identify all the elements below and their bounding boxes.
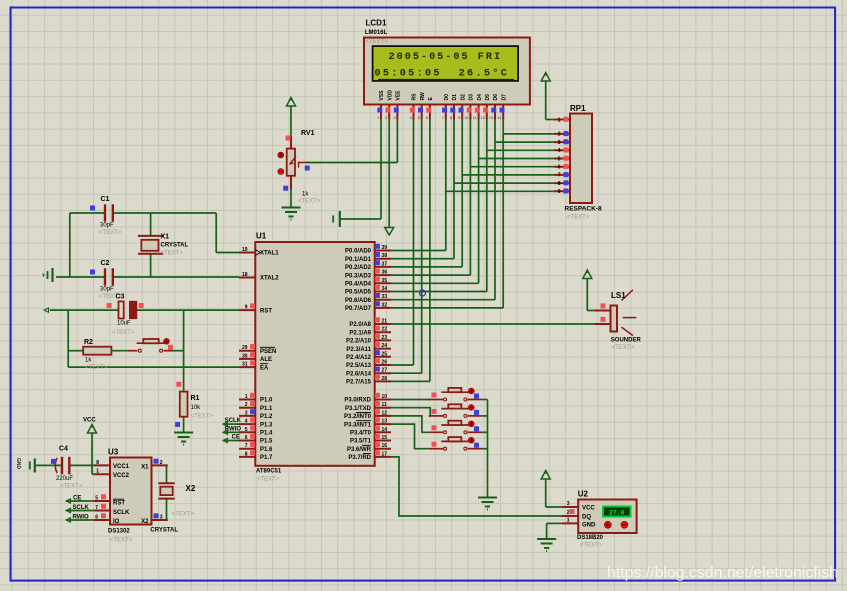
svg-text:31: 31	[242, 362, 248, 368]
svg-text:37: 37	[382, 261, 388, 267]
svg-text:VCC: VCC	[83, 418, 96, 424]
svg-text:P1.6: P1.6	[260, 447, 273, 453]
svg-text:RWIO: RWIO	[225, 426, 242, 432]
svg-text:P0.5/AD5: P0.5/AD5	[345, 290, 372, 296]
svg-text:LCD1: LCD1	[366, 19, 387, 28]
svg-text:<TEXT>: <TEXT>	[191, 414, 214, 420]
svg-text:P1.0: P1.0	[260, 398, 273, 404]
svg-text:P3.3/INT1: P3.3/INT1	[344, 422, 372, 428]
svg-text:<TEXT>: <TEXT>	[110, 538, 133, 544]
svg-text:13: 13	[382, 419, 388, 425]
svg-text:P3.6/WR: P3.6/WR	[347, 447, 372, 453]
svg-text:RESPACK-8: RESPACK-8	[565, 206, 602, 213]
svg-text:14: 14	[497, 115, 502, 120]
svg-text:5: 5	[95, 496, 98, 502]
svg-text:<TEXT>: <TEXT>	[60, 484, 83, 490]
svg-text:P0.3/AD3: P0.3/AD3	[345, 273, 372, 279]
svg-text:CRYSTAL: CRYSTAL	[150, 528, 178, 534]
svg-text:VCC2: VCC2	[113, 473, 130, 479]
svg-text:<TEXT>: <TEXT>	[161, 251, 184, 257]
svg-text:2: 2	[567, 510, 570, 516]
svg-text:36: 36	[382, 270, 388, 276]
svg-text:PSEN: PSEN	[260, 349, 276, 355]
svg-text:16: 16	[382, 443, 388, 449]
svg-text:9: 9	[245, 305, 248, 311]
svg-text:RP1: RP1	[570, 104, 586, 113]
svg-text:P2.6/A14: P2.6/A14	[346, 371, 372, 377]
svg-text:9: 9	[558, 189, 561, 195]
svg-text:P3.0/RXD: P3.0/RXD	[344, 398, 371, 404]
svg-text:1k: 1k	[85, 358, 92, 364]
svg-text:2: 2	[245, 402, 248, 408]
svg-text:15: 15	[382, 435, 388, 441]
svg-text:10: 10	[464, 115, 469, 120]
svg-text:4: 4	[558, 148, 561, 154]
svg-text:P1.1: P1.1	[260, 406, 273, 412]
svg-text:17: 17	[382, 451, 388, 457]
svg-text:VEE: VEE	[396, 90, 402, 101]
svg-text:C2: C2	[101, 260, 110, 267]
svg-text:RWIO: RWIO	[73, 515, 90, 521]
svg-text:<TEXT>: <TEXT>	[612, 345, 635, 351]
svg-text:SCLK: SCLK	[73, 505, 90, 511]
svg-text:<TEXT>: <TEXT>	[112, 330, 135, 336]
svg-text:RW: RW	[420, 92, 426, 101]
svg-text:24: 24	[382, 343, 388, 349]
svg-text:<TEXT>: <TEXT>	[257, 477, 280, 483]
svg-text:8: 8	[96, 460, 99, 466]
svg-text:6: 6	[95, 515, 98, 521]
svg-text:VCC1: VCC1	[113, 464, 130, 470]
svg-text:GND: GND	[582, 522, 596, 528]
svg-text:1: 1	[567, 518, 570, 524]
svg-text:P3.4/T0: P3.4/T0	[350, 431, 372, 437]
svg-text:10k: 10k	[191, 405, 202, 411]
svg-text:11: 11	[382, 402, 388, 408]
svg-text:12: 12	[382, 410, 388, 416]
svg-text:P0.7/AD7: P0.7/AD7	[345, 306, 372, 312]
svg-text:<TEXT>: <TEXT>	[298, 199, 321, 205]
svg-text:X1: X1	[161, 234, 170, 241]
svg-text:SCLK: SCLK	[225, 418, 242, 424]
svg-text:D4: D4	[477, 94, 483, 101]
svg-text:DS1302: DS1302	[108, 529, 130, 535]
svg-text:LS1: LS1	[611, 291, 626, 300]
svg-text:12: 12	[481, 115, 486, 120]
svg-text:35: 35	[382, 278, 388, 284]
svg-text:R1: R1	[191, 395, 200, 402]
svg-text:1k: 1k	[302, 192, 309, 198]
svg-text:29: 29	[242, 345, 248, 351]
svg-text:X1: X1	[141, 465, 149, 471]
svg-text:https://blog.csdn.net/eletroni: https://blog.csdn.net/eletronicfish	[607, 565, 838, 582]
svg-text:2: 2	[160, 460, 163, 466]
svg-text:25: 25	[382, 351, 388, 357]
svg-text:21: 21	[382, 319, 388, 325]
svg-text:P2.2/A10: P2.2/A10	[346, 339, 372, 345]
svg-text:P2.0/A8: P2.0/A8	[349, 322, 371, 328]
svg-text:5: 5	[245, 427, 248, 433]
svg-text:CE: CE	[73, 496, 81, 502]
svg-text:7: 7	[245, 443, 248, 449]
svg-text:AT89C51: AT89C51	[256, 469, 282, 475]
svg-text:22: 22	[382, 327, 388, 333]
svg-text:3: 3	[567, 501, 570, 507]
svg-text:27.0: 27.0	[609, 509, 625, 516]
svg-text:P0.6/AD6: P0.6/AD6	[345, 298, 372, 304]
svg-text:P2.3/A11: P2.3/A11	[346, 347, 371, 353]
svg-text:D0: D0	[444, 94, 450, 101]
svg-text:3: 3	[245, 410, 248, 416]
svg-text:D7: D7	[501, 94, 507, 101]
svg-text:P1.7: P1.7	[260, 455, 273, 461]
svg-text:1: 1	[558, 117, 561, 123]
svg-text:LM016L: LM016L	[365, 30, 388, 36]
svg-text:D5: D5	[485, 94, 491, 101]
svg-text:6: 6	[245, 435, 248, 441]
svg-text:XTAL1: XTAL1	[260, 251, 279, 257]
svg-text:23: 23	[382, 335, 388, 341]
svg-text:DQ: DQ	[582, 514, 591, 520]
svg-text:P2.4/A12: P2.4/A12	[346, 355, 372, 361]
svg-text:<TEXT>: <TEXT>	[567, 215, 590, 221]
svg-text:2: 2	[558, 132, 561, 138]
svg-text:P1.3: P1.3	[260, 422, 273, 428]
svg-text:DS18B20: DS18B20	[577, 535, 604, 541]
svg-text:D1: D1	[452, 94, 458, 101]
svg-text:VSS: VSS	[379, 90, 385, 101]
svg-text:P3.1/TXD: P3.1/TXD	[345, 406, 372, 412]
svg-text:RST: RST	[260, 308, 272, 314]
svg-text:IO: IO	[113, 519, 120, 525]
svg-text:P1.2: P1.2	[260, 414, 273, 420]
svg-text:38: 38	[382, 253, 388, 259]
svg-text:28: 28	[382, 376, 388, 382]
svg-text:27: 27	[382, 368, 388, 374]
svg-text:30pF: 30pF	[100, 223, 114, 229]
svg-text:GND: GND	[15, 458, 21, 470]
svg-text:VCC: VCC	[582, 506, 595, 512]
svg-text:30: 30	[242, 353, 248, 359]
svg-text:6: 6	[558, 165, 561, 171]
svg-text:SCLK: SCLK	[113, 510, 130, 516]
svg-text:CE: CE	[232, 435, 240, 441]
svg-text:P1.4: P1.4	[260, 431, 273, 437]
svg-text:4: 4	[245, 419, 248, 425]
svg-text:33: 33	[382, 294, 388, 300]
svg-text:P3.5/T1: P3.5/T1	[350, 439, 372, 445]
svg-text:39: 39	[382, 245, 388, 251]
svg-text:P2.1/A9: P2.1/A9	[349, 330, 371, 336]
svg-text:VDD: VDD	[387, 90, 393, 101]
svg-text:2005-05-05 FRI: 2005-05-05 FRI	[389, 52, 503, 63]
svg-text:<TEXT>: <TEXT>	[85, 365, 108, 371]
svg-text:5: 5	[558, 156, 561, 162]
svg-text:P2.7/A15: P2.7/A15	[346, 380, 372, 386]
svg-text:D2: D2	[460, 94, 466, 101]
svg-text:U3: U3	[108, 448, 119, 457]
svg-text:P3.2/INT0: P3.2/INT0	[344, 414, 372, 420]
svg-text:P0.2/AD2: P0.2/AD2	[345, 265, 372, 271]
svg-text:RV1: RV1	[301, 130, 315, 137]
svg-text:3: 3	[160, 515, 163, 521]
svg-text:8: 8	[245, 451, 248, 457]
svg-text:19: 19	[242, 247, 248, 253]
svg-text:D6: D6	[493, 94, 499, 101]
svg-text:<TEXT>: <TEXT>	[366, 39, 389, 45]
svg-text:P0.0/AD0: P0.0/AD0	[345, 249, 372, 255]
svg-text:<TEXT>: <TEXT>	[172, 512, 195, 518]
svg-text:X2: X2	[141, 519, 149, 525]
svg-text:X2: X2	[186, 484, 196, 493]
svg-text:XTAL2: XTAL2	[260, 276, 279, 282]
svg-text:34: 34	[382, 286, 388, 292]
svg-text:P3.7/RD: P3.7/RD	[348, 455, 371, 461]
svg-text:RS: RS	[412, 93, 418, 101]
svg-text:C1: C1	[101, 196, 110, 203]
svg-text:<TEXT>: <TEXT>	[580, 543, 603, 549]
svg-text:P0.1/AD1: P0.1/AD1	[345, 257, 372, 263]
svg-text:P0.4/AD4: P0.4/AD4	[345, 282, 372, 288]
svg-text:1: 1	[245, 394, 248, 400]
svg-text:C4: C4	[59, 446, 68, 453]
svg-text:C3: C3	[116, 294, 125, 301]
svg-text:18: 18	[242, 272, 248, 278]
svg-text:14: 14	[382, 427, 388, 433]
svg-text:220uF: 220uF	[56, 476, 73, 482]
svg-text:05:05:05 26.5°C: 05:05:05 26.5°C	[375, 67, 510, 79]
svg-text:P1.5: P1.5	[260, 439, 273, 445]
svg-text:U1: U1	[256, 232, 267, 241]
svg-text:CRYSTAL: CRYSTAL	[161, 243, 189, 249]
svg-text:P2.5/A13: P2.5/A13	[346, 363, 372, 369]
svg-text:10uF: 10uF	[117, 321, 131, 327]
svg-text:1: 1	[96, 469, 99, 475]
svg-text:30pF: 30pF	[100, 287, 114, 293]
svg-text:U2: U2	[578, 490, 589, 499]
svg-text:R2: R2	[84, 339, 93, 346]
svg-text:7: 7	[95, 505, 98, 511]
svg-text:10: 10	[382, 394, 388, 400]
svg-text:3: 3	[558, 140, 561, 146]
svg-text:SOUNDER: SOUNDER	[611, 338, 642, 344]
svg-text:D3: D3	[469, 94, 475, 101]
svg-text:32: 32	[382, 302, 388, 308]
svg-text:8: 8	[558, 181, 561, 187]
svg-text:RST: RST	[113, 501, 125, 507]
svg-text:EA: EA	[260, 365, 269, 371]
svg-text:26: 26	[382, 360, 388, 366]
svg-text:<TEXT>: <TEXT>	[99, 230, 122, 236]
svg-text:13: 13	[489, 115, 494, 120]
svg-text:7: 7	[558, 173, 561, 179]
svg-text:ALE: ALE	[260, 357, 272, 363]
